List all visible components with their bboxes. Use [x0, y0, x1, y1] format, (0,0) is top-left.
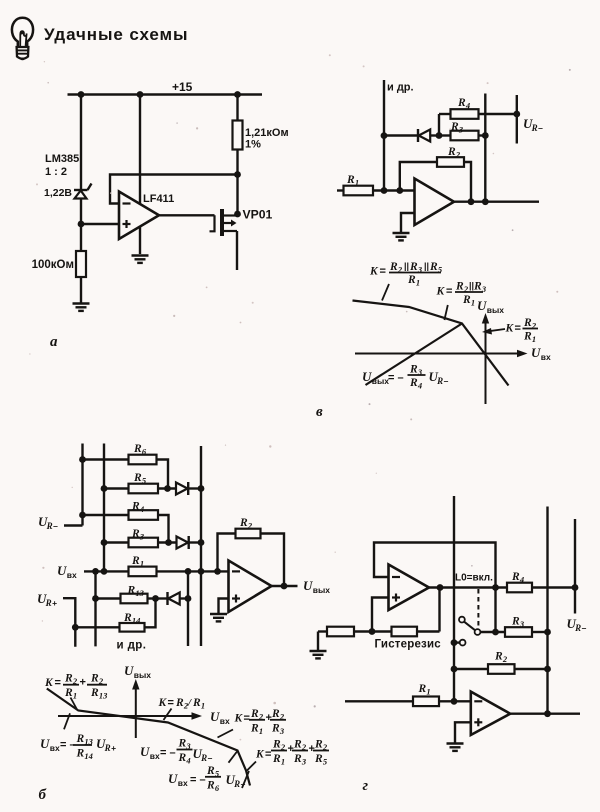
leader (б) 3 — [164, 709, 172, 721]
svg-text:вых: вых — [372, 376, 389, 386]
label U_вых axis (б) — [124, 663, 151, 680]
label г (sub-figure) — [363, 778, 369, 794]
svg-text:и др.: и др. — [387, 82, 414, 94]
label R1 (в) — [346, 174, 359, 188]
svg-text:R: R — [192, 697, 201, 709]
svg-text:U: U — [362, 369, 372, 384]
label R6 (б) — [133, 443, 147, 457]
ground (б) — [210, 614, 227, 621]
svg-text:K: K — [234, 713, 244, 725]
svg-text:R: R — [76, 748, 85, 760]
switch lever — [464, 622, 475, 630]
node: bus-R1 junction — [381, 187, 388, 194]
svg-text:2: 2 — [502, 654, 508, 664]
label U_вх=-R3/R4 U_R- (б) — [140, 738, 213, 766]
svg-text:U: U — [531, 345, 541, 360]
transistor Q1 VP01 (p-MOSFET) — [210, 209, 238, 236]
leader (б) 7 — [242, 771, 249, 788]
node: input-R2loop — [214, 568, 221, 575]
svg-text:R: R — [131, 501, 140, 513]
label а (sub-figure) — [50, 334, 58, 350]
svg-text:K: K — [44, 677, 54, 689]
svg-text:6: 6 — [142, 447, 147, 457]
svg-text:+: + — [288, 743, 294, 755]
svg-text:3: 3 — [185, 741, 191, 751]
svg-text:R: R — [239, 517, 248, 529]
svg-text:1: 1 — [426, 687, 430, 697]
wire: hysteresis to output — [438, 588, 440, 632]
wire: R2 row (г) — [454, 668, 548, 670]
label R4 (г) — [511, 571, 524, 585]
wire: output (в) — [454, 200, 539, 202]
label U_R- (в) — [523, 116, 543, 133]
svg-text:U: U — [124, 663, 134, 678]
wire: feedback opamp inverting input to drain node — [110, 175, 238, 204]
svg-text:вх: вх — [67, 570, 77, 580]
op-amp U1 LF411 — [119, 192, 159, 240]
svg-text:K: K — [436, 286, 446, 298]
label K=R2/R1+R2/R3+R2/R5 (б) — [255, 739, 329, 767]
svg-text:г: г — [363, 778, 369, 794]
svg-text:вх: вх — [178, 778, 188, 788]
label R4 (в) — [457, 97, 470, 111]
svg-text:2: 2 — [72, 676, 78, 686]
svg-text:L0=вкл.: L0=вкл. — [455, 573, 493, 584]
node: UR+-R14 — [72, 624, 79, 631]
node: R2-inverting junction — [396, 187, 403, 194]
node: R1-central bus (г) — [451, 698, 458, 705]
svg-text:R: R — [293, 739, 302, 751]
node: R4-U_R- junction — [572, 584, 579, 591]
op-amp U4 comparator (г) — [389, 565, 430, 611]
svg-text:Удачные схемы: Удачные схемы — [44, 25, 188, 44]
wire: output (б) — [272, 585, 298, 587]
svg-text:R: R — [250, 708, 259, 720]
switch contact upper — [459, 617, 465, 623]
wire: comparator output row / R4 (г) — [429, 586, 575, 588]
node: input-busB — [101, 568, 108, 575]
ground (г comparator) — [310, 651, 327, 658]
ground (г op-amp) — [447, 744, 464, 751]
node: input-busC — [92, 568, 99, 575]
svg-text:R: R — [409, 377, 418, 389]
svg-text:2: 2 — [463, 284, 469, 294]
label 1,21кОм 1% — [245, 127, 289, 151]
svg-text:вх: вх — [220, 716, 230, 726]
svg-text:=: = — [380, 266, 386, 278]
svg-text:R: R — [462, 294, 471, 306]
svg-text:и др.: и др. — [117, 640, 147, 652]
node: R3/R4/diode junction — [436, 132, 443, 139]
wire: input row U_вх / R1 (б) — [84, 570, 229, 572]
svg-text:=: = — [244, 713, 250, 725]
ground (under op-amp a) — [132, 256, 149, 263]
svg-text:1 : 2: 1 : 2 — [45, 166, 67, 178]
svg-text:14: 14 — [84, 751, 93, 761]
node: stub-central bus — [451, 639, 458, 646]
svg-text:–: – — [444, 376, 449, 386]
node: rail-opamp V+ junction — [137, 91, 144, 98]
svg-text:6: 6 — [215, 783, 220, 793]
node: output-feedback bus junction (в) — [482, 198, 489, 205]
svg-text:+: + — [266, 712, 272, 724]
svg-text:2: 2 — [258, 711, 264, 721]
svg-text:а: а — [50, 334, 58, 350]
resistor R5 (б) — [129, 484, 159, 494]
resistor R4 (г) — [507, 583, 532, 593]
leader (в) 2 — [444, 305, 447, 320]
label K=R2/R1 inline (б) — [158, 697, 206, 711]
graph б: transfer curve — [47, 689, 250, 786]
node: R13-R14 junction — [152, 595, 159, 602]
resistor (input, г) — [327, 627, 354, 637]
zener diode LM385 (1,22V) — [74, 184, 92, 199]
resistor R1 (в) — [344, 186, 374, 196]
wire: U_R+ entry — [63, 598, 75, 647]
node: busC-R13 — [92, 595, 99, 602]
svg-text:K: K — [158, 697, 168, 709]
svg-text:1: 1 — [259, 726, 263, 736]
ground (under 100k) — [73, 304, 90, 311]
svg-text:=: = — [515, 323, 521, 335]
wire: noninverting to ground (в) — [401, 213, 415, 233]
svg-text:5: 5 — [215, 768, 220, 778]
node: diode2-bus D — [198, 539, 205, 546]
label U_вх axis (б) — [210, 709, 230, 726]
wire: comparator + to hysteresis node — [372, 598, 389, 632]
svg-text:K: K — [505, 323, 515, 335]
svg-text:3: 3 — [301, 757, 307, 767]
graph в: diagonal segment — [366, 324, 463, 386]
node: fbbus-R3 (г) — [492, 629, 499, 636]
wire: right bus (г) — [546, 507, 548, 714]
svg-text:3: 3 — [417, 265, 423, 275]
svg-text:R: R — [494, 651, 503, 663]
node: R5-R6 junction — [164, 485, 171, 492]
svg-text:5: 5 — [438, 265, 443, 275]
label 1,22В — [44, 187, 72, 199]
svg-text:13: 13 — [99, 691, 108, 701]
op-amp U3 (б) — [229, 561, 272, 613]
svg-text:2: 2 — [247, 521, 253, 531]
node: R2-central bus (г) — [451, 666, 458, 673]
svg-text:R: R — [206, 765, 215, 777]
label K=(R2||R3)/R1 (в) — [436, 281, 487, 308]
svg-text:R: R — [178, 738, 187, 750]
svg-text:R: R — [76, 733, 85, 745]
svg-text:R: R — [133, 472, 142, 484]
svg-text:R: R — [123, 612, 132, 624]
wire: 1,21k branch from rail to drain — [236, 95, 238, 215]
node: R3-feedback bus junction — [482, 132, 489, 139]
wire: MOSFET source output — [236, 231, 238, 270]
leader (б) 4 — [218, 730, 234, 738]
svg-text:2: 2 — [280, 742, 286, 752]
terminal U_R- (г) — [574, 519, 576, 614]
svg-text:R: R — [473, 281, 482, 293]
svg-text:K: K — [255, 749, 265, 761]
svg-text:R: R — [178, 752, 187, 764]
svg-text:14: 14 — [132, 616, 141, 626]
ground (circuit в) — [393, 233, 410, 240]
svg-text:LM385: LM385 — [45, 153, 79, 165]
graph б: y axis — [132, 679, 139, 738]
node: feedback-drain junction — [234, 171, 241, 178]
resistor R3 (г) — [505, 627, 532, 637]
wire: output (г) — [510, 713, 580, 715]
svg-text:R: R — [90, 687, 99, 699]
wire: comparator feedback loop (г) — [374, 543, 496, 633]
wire: node A to opamp + input — [81, 223, 119, 225]
label K=R2/R1+R2/R13 (б) — [44, 673, 108, 701]
svg-text:2: 2 — [397, 265, 403, 275]
label U_вых (б) — [303, 578, 330, 595]
wire: R4 row — [439, 113, 517, 115]
node: drain pin dot — [234, 211, 241, 218]
svg-text:=: = — [55, 677, 61, 689]
svg-text:–: – — [538, 123, 543, 133]
wire: +15 supply rail (circuit a) — [68, 93, 263, 95]
title: Удачные схемы — [44, 25, 188, 44]
op-amp U5 (г) — [471, 692, 510, 735]
wire: R6 row — [83, 460, 169, 489]
svg-text:5: 5 — [323, 757, 328, 767]
svg-text:+: + — [80, 677, 86, 689]
leader (б) 5 — [229, 752, 238, 763]
wire: R3 row (г) — [480, 631, 547, 633]
svg-text:вых: вых — [313, 585, 330, 595]
svg-text:+: + — [111, 743, 116, 753]
svg-text:R: R — [314, 753, 323, 765]
svg-text:1,22В: 1,22В — [44, 187, 72, 199]
svg-text:2: 2 — [98, 676, 104, 686]
svg-text:=: = — [168, 697, 174, 709]
node: input-busE — [185, 568, 192, 575]
node: diode1-bus D — [198, 485, 205, 492]
label в (sub-figure) — [316, 404, 323, 420]
svg-text:R: R — [418, 683, 427, 695]
wire: 100k to ground — [80, 277, 82, 303]
svg-text:4: 4 — [519, 575, 524, 585]
resistor R4 (б) — [129, 510, 159, 520]
resistor R14 (б) — [120, 623, 145, 632]
node A: zener/opamp+/100k junction — [78, 221, 85, 228]
leader (б) 2 — [64, 713, 70, 729]
label K=(R2||R3||R5)/R1 (в) — [369, 261, 443, 288]
graph в: transfer curve — [353, 301, 509, 386]
label и др. (б) — [117, 640, 147, 652]
svg-text:R: R — [531, 123, 538, 133]
wire: R2 loop (в) — [400, 162, 471, 202]
svg-text:1: 1 — [140, 559, 144, 569]
svg-text:3: 3 — [481, 284, 487, 294]
node: output-R2 (б) — [281, 583, 288, 590]
resistor R4 (в) — [451, 109, 479, 119]
op-amp U2 (в) — [415, 179, 455, 226]
wire: R14 row — [75, 599, 155, 628]
wire: dashed switch line — [477, 589, 479, 627]
svg-text:4: 4 — [417, 381, 422, 391]
resistor R2 (в) — [437, 157, 464, 167]
svg-text:R: R — [511, 616, 520, 628]
svg-text:U: U — [477, 298, 487, 313]
resistor 100кОм — [76, 251, 86, 277]
wire: feedback bus (в) — [484, 94, 486, 202]
leader arrow (в) — [482, 328, 505, 335]
label L0=вкл. — [455, 573, 493, 584]
svg-text:R: R — [46, 521, 53, 531]
wire: R2 loop (б) — [218, 534, 285, 587]
label U_вых=-R3/R4 U_R- (в) — [362, 364, 449, 391]
label R4 (б) — [131, 501, 144, 515]
wire: ground stub (г left) — [317, 632, 319, 651]
label +15 — [172, 80, 193, 94]
wire: lower contact stub — [454, 641, 460, 643]
wire: bus D (б) — [200, 446, 202, 646]
svg-text:=: = — [446, 286, 452, 298]
label U_R- (г) — [567, 616, 587, 633]
label U_вх=-R5/R6 U_R- (б) — [168, 765, 246, 793]
svg-text:U: U — [303, 578, 313, 593]
wire: R4 row (б) — [83, 515, 169, 543]
svg-text:+15: +15 — [172, 80, 193, 94]
svg-text:13: 13 — [135, 588, 144, 598]
wire: zener anode to node A — [80, 199, 82, 252]
svg-text:R: R — [409, 261, 418, 273]
resistor R2 (б) — [236, 529, 261, 539]
svg-text:вых: вых — [487, 305, 504, 315]
svg-text:R: R — [314, 739, 323, 751]
svg-text:вх: вх — [541, 352, 551, 362]
wire: bus C (б) — [94, 571, 96, 646]
node: busA-R6 — [79, 456, 86, 463]
wire: input through R1 (в) — [337, 189, 415, 191]
graph б: x axis — [58, 712, 202, 719]
svg-text:R: R — [389, 261, 398, 273]
resistor R1 (б) — [129, 567, 157, 577]
svg-text:5: 5 — [142, 476, 147, 486]
node: output-fb bus (г) — [492, 584, 499, 591]
svg-text:2: 2 — [301, 742, 307, 752]
wire: R13 row — [96, 597, 156, 599]
label U_R+ (б) — [37, 591, 57, 608]
wire: U_R- entry (б) — [64, 524, 83, 526]
svg-text:–: – — [208, 753, 213, 763]
svg-text:R: R — [429, 261, 438, 273]
svg-text:1: 1 — [355, 178, 359, 188]
label R2 (в) — [447, 146, 461, 160]
svg-text:R: R — [450, 121, 459, 133]
wire: noninverting to ground (б) — [219, 599, 229, 614]
svg-text:–: – — [53, 521, 58, 531]
node: hysteresis junction — [369, 628, 376, 635]
svg-text:2: 2 — [455, 150, 461, 160]
svg-text:U: U — [40, 736, 50, 751]
svg-text:R: R — [447, 146, 456, 158]
wire: R4 left lead down — [438, 114, 440, 136]
svg-text:1: 1 — [532, 334, 536, 344]
diode VD (в) — [384, 129, 439, 142]
svg-text:1: 1 — [73, 691, 77, 701]
svg-text:R: R — [175, 697, 184, 709]
label U_вх axis (в) — [531, 345, 551, 362]
svg-text:R: R — [200, 753, 207, 763]
node: input-busD — [198, 568, 205, 575]
label K=R2/R1+R2/R3 (б) — [234, 708, 287, 736]
diode VD1 (б) — [176, 482, 201, 495]
wire: hysteresis row — [318, 630, 440, 632]
node: output-hysteresis (г) — [437, 584, 444, 591]
svg-text:–: – — [582, 623, 587, 633]
diode VD3 (б, reversed) — [156, 592, 189, 605]
svg-text:R: R — [436, 376, 443, 386]
node: R3-R4 junction — [165, 539, 172, 546]
wire: R3 row (б) — [104, 541, 177, 543]
svg-text:4: 4 — [185, 756, 190, 766]
svg-text:3: 3 — [519, 619, 525, 629]
svg-text:2: 2 — [279, 711, 285, 721]
svg-text:1: 1 — [416, 278, 420, 288]
label Гистерезис — [375, 639, 442, 651]
label б (sub-figure) — [39, 787, 47, 803]
wire: R3 row — [439, 134, 485, 136]
svg-text:U: U — [210, 709, 220, 724]
svg-text:1: 1 — [471, 297, 475, 307]
svg-text:R: R — [45, 598, 52, 608]
svg-text:= –: = – — [160, 747, 176, 759]
svg-text:+: + — [309, 743, 315, 755]
label U_вых axis (в) — [477, 298, 504, 315]
lightbulb icon — [12, 18, 33, 60]
label 100кОм — [32, 259, 74, 271]
switch contact common — [475, 629, 481, 635]
svg-text:U: U — [140, 744, 150, 759]
graph в: y axis U_вых — [482, 313, 489, 404]
node: busB-R3 — [101, 539, 108, 546]
node: rail-resistor junction — [234, 91, 241, 98]
svg-text:R: R — [131, 528, 140, 540]
svg-text:VP01: VP01 — [243, 208, 273, 222]
leader (б) 1 — [71, 698, 78, 710]
label LF411 — [143, 193, 174, 205]
node: rail-zener junction — [78, 91, 85, 98]
svg-text:||: || — [424, 261, 429, 271]
svg-text:R: R — [574, 623, 581, 633]
graph в: x axis U_вх — [355, 350, 528, 357]
svg-text:R: R — [523, 317, 532, 329]
label R3 (б) — [131, 528, 145, 542]
wire: opamp output to MOSFET gate — [159, 214, 215, 216]
resistor R1 (г) — [413, 697, 439, 707]
svg-text:= –: = – — [190, 774, 206, 786]
resistor R6 (б) — [129, 455, 157, 465]
svg-text:3: 3 — [139, 532, 145, 542]
paper speckle texture — [29, 54, 571, 746]
wire: rail to zener cathode — [80, 95, 82, 190]
svg-text:R: R — [271, 722, 280, 734]
svg-text:R: R — [272, 753, 281, 765]
label R13 (б) — [127, 585, 145, 599]
svg-text:в: в — [316, 404, 323, 420]
svg-text:1%: 1% — [245, 139, 261, 151]
label LM385 1:2 — [45, 153, 79, 178]
svg-text:R: R — [511, 571, 520, 583]
svg-text:13: 13 — [84, 737, 93, 747]
svg-text:3: 3 — [417, 367, 423, 377]
leader (в) 1 — [382, 284, 389, 301]
svg-text:R: R — [233, 779, 240, 789]
svg-text:100кОм: 100кОм — [32, 259, 74, 271]
